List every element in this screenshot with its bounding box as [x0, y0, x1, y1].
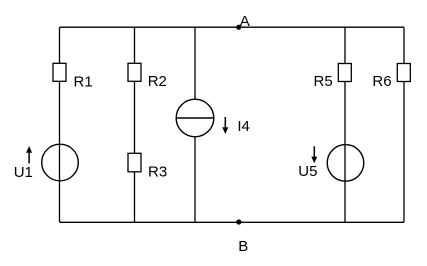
- wire branch 1 (left, U1/R1): [59, 27, 61, 222]
- resistor R3: [128, 153, 167, 180]
- svg-text:R2: R2: [148, 73, 167, 90]
- wire branch 5 (right, R6): [403, 27, 405, 222]
- svg-text:U1: U1: [14, 164, 33, 181]
- svg-text:R3: R3: [148, 164, 167, 181]
- wire bottom bus B: [60, 221, 405, 223]
- wire branch 2 (R2/R3): [134, 27, 136, 222]
- svg-text:B: B: [238, 238, 248, 255]
- resistor R2: [128, 63, 167, 90]
- node A: [236, 13, 250, 30]
- svg-text:R1: R1: [74, 74, 93, 91]
- wire top bus A: [60, 26, 405, 28]
- svg-text:R6: R6: [372, 73, 391, 90]
- resistor R6: [372, 64, 410, 91]
- node B: [236, 219, 248, 255]
- current source I4: [176, 99, 250, 137]
- wire branch 4 (R5/U5): [344, 27, 346, 222]
- svg-text:R5: R5: [314, 73, 333, 90]
- voltage source U1: [14, 144, 79, 181]
- svg-text:U5: U5: [298, 163, 317, 180]
- resistor R5: [314, 64, 352, 91]
- resistor R1: [53, 63, 93, 90]
- voltage source U5: [298, 145, 364, 182]
- svg-text:A: A: [240, 13, 250, 30]
- wire branch 3 (I4): [194, 27, 196, 222]
- svg-text:I4: I4: [237, 118, 250, 135]
